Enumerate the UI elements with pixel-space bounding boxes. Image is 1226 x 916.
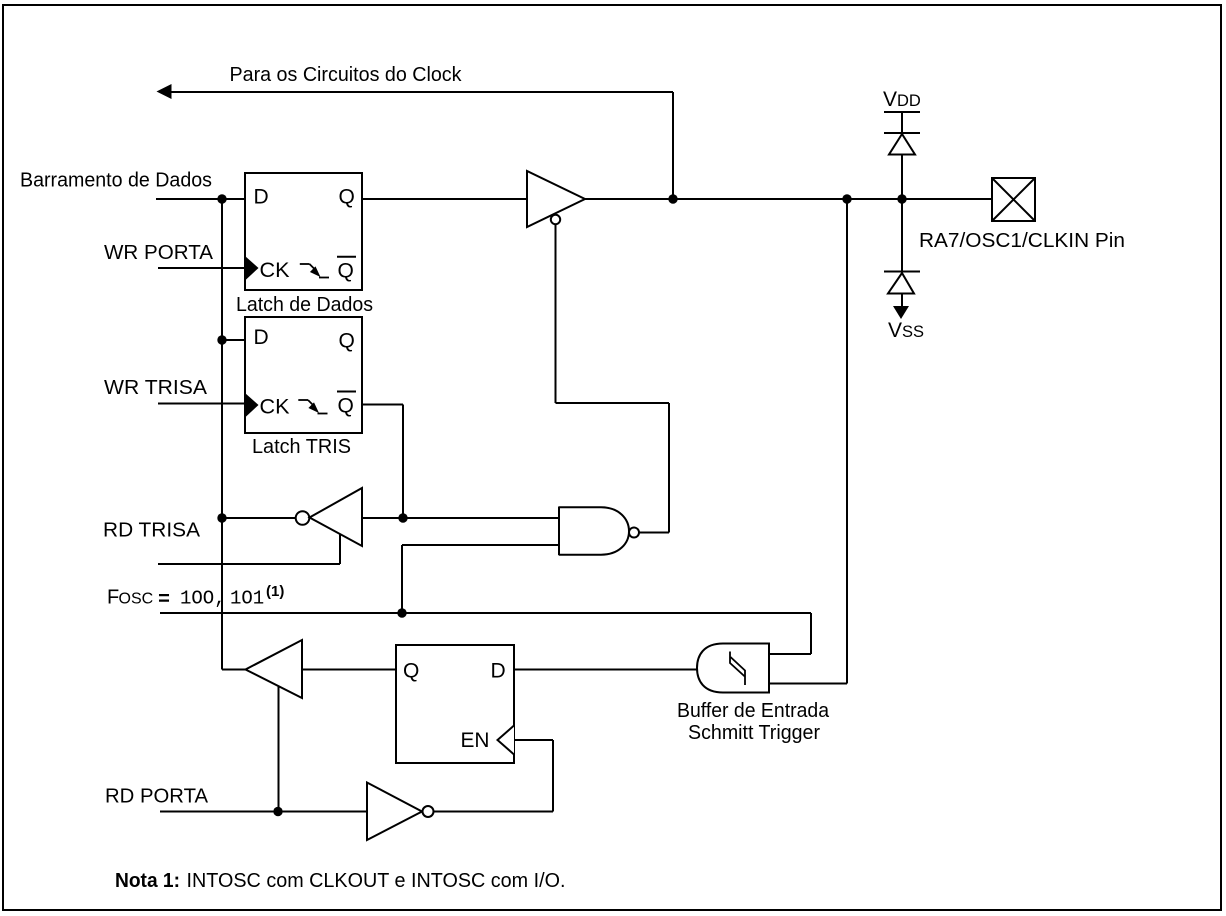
- label: FOSC = 100, 101 (1): [107, 583, 284, 612]
- overbar of Qbar (U1): [337, 256, 356, 258]
- wire: U8 output to data bus rail: [222, 669, 246, 671]
- clock input triangle (U1): [245, 256, 259, 281]
- wire: U1 Q output to driver input: [362, 198, 527, 200]
- wire: diode D2 to VSS arrow: [901, 294, 903, 307]
- svg-text:Q: Q: [338, 260, 354, 283]
- svg-text:CK: CK: [260, 259, 290, 282]
- enable bubble of U2: [551, 215, 560, 224]
- junction: data bus node A: [217, 194, 226, 203]
- inverter U4 triangle (points left): [310, 488, 363, 546]
- svg-text:1OO,: 1OO,: [180, 588, 226, 610]
- wire: NAND lower input: [402, 544, 559, 546]
- svg-text:CK: CK: [260, 396, 290, 419]
- junction: node PIN at x=847: [842, 194, 851, 203]
- wire: U2 enable horizontal: [556, 402, 670, 404]
- wire: WR TRISA to CK of U3: [158, 403, 245, 405]
- schmitt hysteresis symbol (U6): [730, 652, 745, 686]
- svg-text:Nota 1:: Nota 1:: [115, 870, 180, 892]
- svg-text:F: F: [107, 587, 119, 609]
- wire: rail to inverter U4 bubble: [222, 517, 296, 519]
- junction: FOSC node to NAND: [397, 608, 406, 617]
- overbar of Qbar (U3): [337, 391, 356, 393]
- latch U7 (read latch) body: [396, 645, 514, 763]
- wire: VDD to diode D1: [901, 112, 903, 133]
- svg-text:Q: Q: [338, 395, 354, 418]
- svg-text:DD: DD: [897, 92, 921, 110]
- wire: rail to U3 D input: [222, 339, 245, 341]
- svg-text:INTOSC com CLKOUT e INTOSC com: INTOSC com CLKOUT e INTOSC com I/O.: [187, 870, 566, 892]
- wire: U8 enable vertical: [278, 686, 280, 812]
- svg-text:WR PORTA: WR PORTA: [104, 242, 214, 264]
- VSS arrow: [893, 306, 909, 319]
- NAND gate U5 body: [559, 507, 629, 556]
- schmitt trigger input buffer U6 body (points left): [697, 644, 769, 693]
- svg-text:OSC: OSC: [119, 591, 154, 608]
- wire: U2 output bus to pin: [585, 198, 992, 200]
- arrowhead: clock return (points left): [157, 84, 172, 99]
- svg-text:=: =: [158, 589, 170, 612]
- label: VDD: [883, 88, 921, 111]
- inverter U9 bubble: [423, 806, 434, 817]
- wire: FOSC riser to NAND input: [401, 545, 403, 613]
- inverter U9 triangle: [367, 783, 422, 841]
- clock input triangle (U3): [245, 393, 259, 418]
- wire: pin bus to diode D2: [901, 199, 903, 272]
- svg-text:V: V: [883, 88, 897, 111]
- svg-text:1O1: 1O1: [230, 588, 264, 610]
- svg-text:D: D: [254, 186, 269, 209]
- svg-text:Q: Q: [339, 330, 355, 353]
- falling edge symbol (U1): [300, 264, 329, 278]
- junction: rail node at RD TRISA: [217, 513, 226, 522]
- junction: node at x=403 on U4 input: [398, 513, 407, 522]
- wire: data bus into latch D: [156, 198, 245, 200]
- wire: NAND output: [639, 532, 669, 534]
- svg-text:Schmitt Trigger: Schmitt Trigger: [688, 722, 820, 744]
- junction: node at U3 D input: [217, 335, 226, 344]
- svg-text:Buffer de Entrada: Buffer de Entrada: [677, 700, 830, 722]
- svg-text:RD TRISA: RD TRISA: [103, 520, 201, 542]
- wire: WR PORTA to CK of U1: [158, 267, 245, 269]
- svg-text:D: D: [254, 326, 269, 349]
- svg-text:RA7/OSC1/CLKIN Pin: RA7/OSC1/CLKIN Pin: [919, 230, 1125, 252]
- falling edge symbol (U3): [298, 400, 327, 414]
- wire: RD PORTA horizontal: [160, 811, 367, 813]
- svg-text:Latch TRIS: Latch TRIS: [252, 436, 351, 458]
- note text: [115, 870, 566, 892]
- wire: FOSC horizontal: [160, 612, 811, 614]
- wire: FOSC drop to schmitt: [810, 613, 812, 654]
- wire: U4 input from NAND node: [362, 517, 559, 519]
- wire: clock return bus horizontal: [170, 91, 673, 93]
- wire: U2 enable drop to NAND output: [668, 403, 670, 533]
- latch U1 Latch de Dados body: [245, 173, 362, 290]
- svg-text:D: D: [491, 660, 506, 683]
- wire: pin vertical to schmitt input: [846, 199, 848, 684]
- wire: U3 Qbar drop to NAND input node: [402, 405, 404, 519]
- wire: U3 Qbar output: [362, 404, 403, 406]
- junction: RD PORTA node: [273, 807, 282, 816]
- svg-text:Latch de Dados: Latch de Dados: [236, 294, 373, 316]
- svg-text:RD PORTA: RD PORTA: [105, 786, 209, 808]
- wire: U2 enable down from bubble: [555, 224, 557, 403]
- wire: FOSC into schmitt upper input: [769, 653, 811, 655]
- diode D2 triangle: [888, 273, 914, 294]
- wire: U7 Q output to buffer U8: [302, 669, 396, 671]
- wire: schmitt output to latch U7 D: [514, 669, 697, 671]
- diode D1 cathode bar: [884, 132, 920, 134]
- wire: U4 enable vertical: [339, 534, 341, 564]
- diode D2 cathode bar: [884, 271, 920, 273]
- tri-state output driver U2 (triangle): [527, 171, 585, 227]
- wire: clock return vertical drop to node CLK: [672, 92, 674, 199]
- wire: into EN of U7: [514, 739, 553, 741]
- wire: U9 output: [434, 811, 554, 813]
- wire: diode D1 to pin bus: [901, 155, 903, 200]
- latch U3 Latch TRIS body: [245, 317, 362, 433]
- wire: U9 output riser to EN: [552, 740, 554, 812]
- inverter U4 bubble: [296, 511, 310, 525]
- junction: node ESD at x=902: [897, 194, 906, 203]
- EN input wedge (U7): [498, 726, 515, 755]
- pin pad RA7/OSC1/CLKIN: [992, 178, 1035, 221]
- svg-text:(1): (1): [266, 583, 284, 600]
- svg-text:Barramento de Dados: Barramento de Dados: [20, 170, 212, 192]
- diode D1 triangle: [889, 134, 915, 155]
- svg-text:EN: EN: [461, 729, 490, 752]
- svg-text:SS: SS: [902, 323, 924, 341]
- svg-text:Q: Q: [339, 186, 355, 209]
- junction: node CLK at x=673: [668, 194, 677, 203]
- VDD rail bar: [884, 111, 920, 113]
- NAND U5 bubble: [629, 528, 639, 538]
- wire: data bus vertical rail x=222: [221, 199, 223, 670]
- svg-text:V: V: [888, 319, 902, 342]
- tri-state buffer U8 (points left): [246, 640, 303, 698]
- svg-text:Para os Circuitos do Clock: Para os Circuitos do Clock: [230, 64, 463, 86]
- wire: U4 enable horizontal: [158, 563, 340, 565]
- label: VSS: [888, 319, 924, 342]
- wire: pin into schmitt lower input: [769, 683, 847, 685]
- svg-text:WR TRISA: WR TRISA: [104, 377, 208, 399]
- svg-text:Q: Q: [403, 660, 419, 683]
